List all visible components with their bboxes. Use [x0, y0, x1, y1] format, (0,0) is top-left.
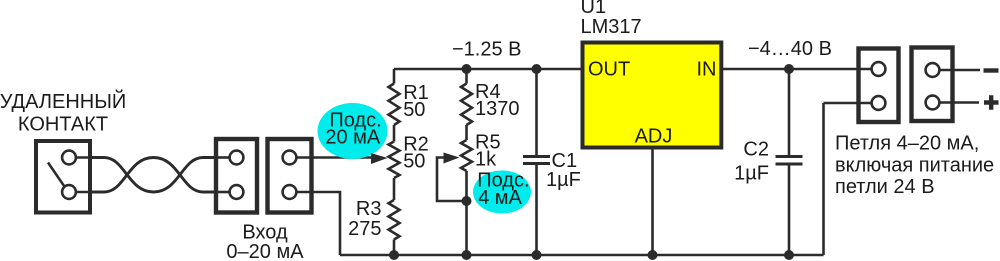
svg-text:1k: 1k — [475, 148, 497, 170]
capacitor C2 bottom lead — [788, 166, 791, 256]
capacitor C2 top lead — [788, 69, 791, 155]
top wire -1.25V net — [394, 68, 582, 71]
switch lever — [48, 163, 64, 187]
svg-text:275: 275 — [348, 218, 381, 240]
capacitor C1 top lead — [535, 69, 538, 155]
svg-text:50: 50 — [403, 151, 425, 173]
resistor R4 — [461, 84, 472, 126]
block2 upper circle — [283, 151, 297, 165]
resistor R2 (potentiometer) — [389, 142, 400, 179]
R5 wiper return wire — [437, 158, 467, 202]
loop block left upper circle — [872, 62, 886, 76]
input terminal block half 2 — [268, 139, 312, 213]
minus polarity mark — [984, 68, 999, 72]
block2 lower circle — [283, 185, 297, 199]
junction dot C1 top — [532, 64, 542, 74]
LM317 regulator U1 body — [583, 43, 722, 148]
svg-text:50: 50 — [403, 99, 425, 121]
wire: to loop block lower circle — [824, 102, 872, 105]
twisted pair wire B — [90, 158, 216, 193]
stub: right block lower circle to plus — [939, 101, 979, 104]
svg-text:1µF: 1µF — [546, 169, 581, 191]
svg-text:C2: C2 — [743, 138, 769, 160]
junction dot rail R3 — [389, 250, 399, 260]
svg-text:4 мА: 4 мА — [478, 187, 522, 209]
input terminal block half 1 — [216, 139, 257, 213]
R5 wiper arrowhead — [444, 153, 460, 164]
svg-text:0–20 мА: 0–20 мА — [226, 241, 304, 261]
block1 lower circle — [230, 185, 244, 199]
svg-text:КОНТАКТ: КОНТАКТ — [18, 114, 108, 136]
svg-text:IN: IN — [697, 59, 717, 81]
capacitor C1 bottom lead — [535, 165, 538, 255]
wire R4 to R5 — [465, 125, 468, 140]
twisted pair wire A — [90, 158, 216, 193]
junction dot C2 top — [784, 64, 794, 74]
capacitor C2 plates — [776, 157, 803, 165]
loop terminal block right — [912, 48, 953, 122]
capacitor C1 plates — [523, 157, 550, 164]
wire R5 to rail — [465, 171, 468, 255]
wire: rail right end up to loop terminal — [822, 103, 825, 255]
middle column wire R4-R5 — [465, 69, 468, 84]
junction dot rail C2 — [784, 250, 794, 260]
wire R1 to R2 — [393, 125, 396, 142]
svg-text:−1.25 В: −1.25 В — [452, 39, 522, 61]
contact terminal lower circle — [62, 185, 76, 199]
contact terminal upper circle — [62, 151, 76, 165]
svg-text:петли 24 В: петли 24 В — [835, 176, 935, 198]
svg-text:20 мА: 20 мА — [325, 126, 381, 148]
loop terminal block left — [859, 49, 899, 123]
svg-text:включая питание: включая питание — [835, 154, 994, 176]
loop block right lower circle — [926, 96, 940, 110]
plus polarity mark — [984, 95, 999, 109]
wire: block2 lower circle to bottom rail — [296, 192, 340, 255]
svg-text:LM317: LM317 — [581, 16, 642, 38]
svg-text:1µF: 1µF — [734, 162, 769, 184]
R2 wiper arrowhead — [371, 153, 388, 164]
svg-text:УДАЛЕННЫЙ: УДАЛЕННЫЙ — [0, 89, 126, 113]
bottom rail — [340, 254, 824, 257]
wire: IN pin to loop terminal — [723, 68, 872, 71]
loop block left lower circle — [872, 96, 886, 110]
junction dot rail ADJ — [648, 250, 658, 260]
resistor R1 — [389, 84, 400, 126]
highlight ellipse Подс. 4 мА — [473, 171, 531, 214]
junction dot R4 top — [462, 64, 472, 74]
svg-text:ADJ: ADJ — [635, 126, 673, 148]
wire: lower contact to box edge — [76, 191, 92, 194]
wire R3 to rail — [393, 240, 396, 256]
block1 upper circle — [230, 151, 244, 165]
svg-text:Петля 4–20 мА,: Петля 4–20 мА, — [835, 133, 979, 155]
svg-text:R3: R3 — [356, 198, 382, 220]
left column wire R1-R2-R3 — [393, 69, 396, 84]
resistor R3 — [389, 200, 400, 240]
stub to block1 lower circle — [216, 191, 230, 194]
stub: right block upper circle to minus — [939, 69, 980, 72]
junction dot R5 wiper — [462, 196, 472, 206]
junction dot rail C1 — [532, 250, 542, 260]
wire: upper contact to box edge — [76, 156, 92, 159]
wire R2 to R3 — [393, 178, 396, 200]
ADJ pin wire — [651, 145, 654, 255]
highlight ellipse Подс. 20 мА — [318, 103, 388, 159]
loop block right upper circle — [926, 63, 940, 77]
junction dot rail R5 — [462, 250, 472, 260]
resistor R5 (trimmer) — [461, 140, 472, 171]
svg-text:−4…40 В: −4…40 В — [748, 38, 832, 60]
remote contact box S1 — [36, 141, 90, 213]
stub to block1 upper circle — [216, 156, 230, 159]
svg-text:OUT: OUT — [588, 59, 630, 81]
wire: block2 upper circle to R2 wiper — [296, 156, 372, 159]
svg-text:1370: 1370 — [475, 98, 520, 120]
